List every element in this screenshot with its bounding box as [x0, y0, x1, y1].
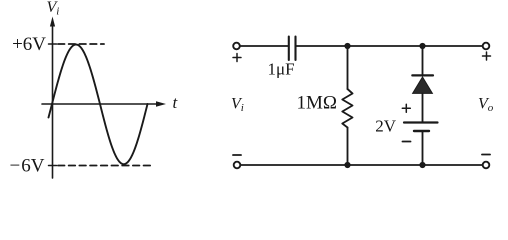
svg-text:−6V: −6V [10, 156, 45, 177]
svg-text:+6V: +6V [12, 34, 46, 55]
svg-text:1MΩ: 1MΩ [296, 93, 337, 114]
svg-text:2V: 2V [375, 117, 397, 136]
svg-text:1μF: 1μF [267, 60, 294, 79]
